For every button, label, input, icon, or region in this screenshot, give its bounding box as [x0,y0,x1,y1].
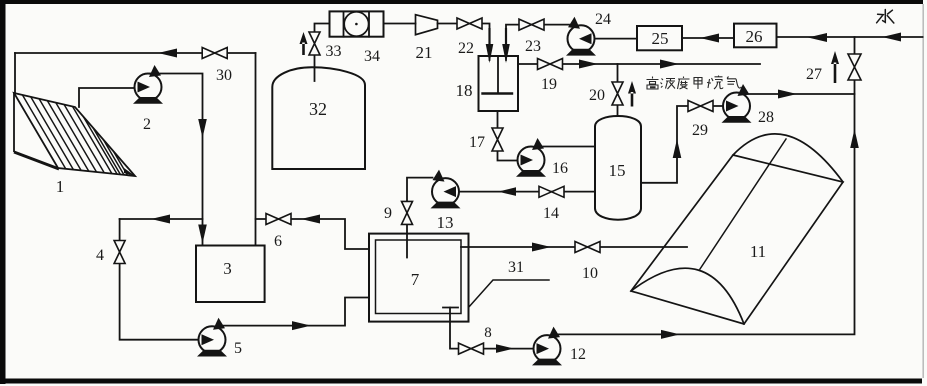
valve 33 [309,32,320,55]
svg-text:34: 34 [364,48,380,65]
svg-text:24: 24 [595,11,611,28]
valve 30 [202,48,227,59]
arrow right methane line 1 [579,60,598,69]
arrow down to box 3 lower [198,225,207,244]
arrow right box7 outlet [532,243,551,252]
svg-text:6: 6 [274,233,282,250]
tank 11 ridge line [700,139,786,269]
solar collector 1 [14,93,135,176]
wire box 18 outlet through valve 19 [518,63,760,65]
valve 17 [492,128,503,151]
thick arrow up beside valve 20 [628,81,636,107]
valve 20 [612,82,623,105]
label gao nong du jia wan qi (high concentration methane gas) [647,76,742,90]
reducer 21 [416,15,438,35]
svg-text:16: 16 [552,160,568,177]
wire cross header to valve 4 [120,218,203,220]
svg-text:29: 29 [692,122,708,139]
svg-text:15: 15 [609,161,626,180]
wire valve 33 riser to flowmeter [315,24,330,33]
flowmeter center dot [355,23,358,26]
valve 29 [688,101,713,112]
svg-text:7: 7 [411,270,420,289]
flowmeter 33/34 outer box [330,11,384,36]
wire pump 5 outlet to box 7 lower stub [219,298,369,326]
arrow right pump5 outlet [292,321,311,330]
svg-text:21: 21 [416,43,433,62]
gas washer box 18 [479,56,519,111]
wire valve 9 line into box 7 [407,178,433,258]
pump 13 [431,170,461,209]
wire tank 15 right riser to valve 29 [641,106,724,183]
svg-text:3: 3 [223,259,232,278]
svg-text:1: 1 [56,177,65,196]
valve 9 [402,201,413,224]
valve 14 [539,186,564,197]
border frame top bar [0,0,923,4]
arrow left valve 14 line [498,187,516,196]
box 18 liquid bar [483,92,513,94]
wire box 7 drain [450,308,534,349]
box 25 [637,26,682,50]
box 18 dip tube [497,56,499,94]
arrow right into pump 12 [496,344,514,353]
flowmeter divider left [343,11,345,36]
svg-text:26: 26 [746,27,763,46]
wire right header drop to box 3 [255,53,257,245]
svg-text:10: 10 [582,265,598,282]
border frame bottom bar [4,379,922,384]
wire box 25 to pump 24 [595,38,638,40]
label shui (water) [877,10,894,24]
flowmeter circle [344,12,368,36]
border frame left bar [0,0,6,384]
wire flowmeter to reducer 21 [384,23,416,25]
arrow left into box 25 [700,34,719,43]
svg-text:9: 9 [384,205,392,222]
tank 15 vessel [595,116,641,220]
valve 8 [459,343,484,354]
svg-text:28: 28 [758,109,774,126]
wire pump 16 outlet to tank 15 [540,146,595,148]
wire reducer 21 to valve 22 [438,23,458,25]
svg-text:5: 5 [234,340,242,357]
svg-text:2: 2 [143,116,151,133]
wire pump 28 outlet to riser [745,93,855,95]
reactor box 7 inner wall [376,240,462,314]
valve 22 [457,18,482,29]
svg-text:11: 11 [750,242,766,261]
thick arrow up beside valve 27 [831,51,839,83]
valve 23 [519,19,544,30]
svg-text:20: 20 [589,87,605,104]
gas holder dome 32 [272,67,365,169]
svg-text:22: 22 [458,40,474,57]
svg-text:12: 12 [570,346,586,363]
wire water inlet to box 26 [777,36,923,38]
pump 12 [532,327,562,366]
wire valve 17 to pump 16 [498,151,519,161]
svg-text:27: 27 [806,66,822,83]
arrow down into box 18 right [502,28,510,63]
arrow right pump12 outlet [661,330,680,339]
wire header down to collector [14,53,16,93]
border frame right line [922,4,924,378]
arrow left toward valve 4 [151,215,170,224]
wire valve 20 riser from tank 15 [617,64,619,116]
box 3 [196,246,265,303]
valve 19 [538,59,563,70]
svg-text:18: 18 [456,81,473,100]
wire box 26 to box 25 [682,37,734,39]
valve 4 [114,241,125,264]
svg-text:32: 32 [309,99,327,119]
wire valve 33 to dome 32 [314,55,316,81]
valve 27 [848,54,861,80]
arrow right methane line 2 [660,60,679,69]
svg-text:17: 17 [469,134,485,151]
arrow left into box 26 [808,33,827,42]
arrow down into box 18 left [486,28,494,63]
digester tank 11 body [631,155,843,324]
tank 11 top end cap arc [733,134,843,182]
wire valve 6 branch to box 7 upper stub [256,219,370,249]
svg-text:4: 4 [96,247,104,264]
wire pump 2 outlet down to box 3 [150,74,203,245]
arrow left on header [158,49,177,58]
svg-text:13: 13 [437,213,454,232]
pump 28 [722,84,752,123]
box 26 [734,24,777,48]
arrow right pump28 outlet [778,90,797,99]
tank 11 bottom end cap arc [631,268,744,324]
wire collector to pump 2 inlet [79,88,136,107]
reactor box 7 outer wall [369,234,469,322]
svg-text:31: 31 [508,259,524,276]
box 7 drain tick [443,307,458,309]
arrow up right riser [850,129,859,148]
wire pump 24 outlet through valve 23 into box 18 [506,25,569,60]
wire top-left header [15,52,256,54]
arrow left toward valve 6 [301,215,320,224]
collector tip mark [124,168,135,176]
wire valve 14 line pump 13 to tank 15 [460,191,596,193]
svg-text:23: 23 [525,38,541,55]
svg-text:33: 33 [326,43,342,60]
pump 16 [516,138,546,177]
pump 2 [133,65,163,104]
svg-text:25: 25 [652,29,669,48]
svg-text:19: 19 [541,76,557,93]
leader line for 31 [469,280,550,308]
flow arrows [151,28,901,353]
svg-text:8: 8 [484,325,492,341]
pump 24 [566,17,596,56]
svg-text:14: 14 [543,205,559,222]
wire pump 12 outlet to right riser [554,37,855,334]
valve 6 [266,214,291,225]
wire box 7 outlet through valve 10 to tank 11 [461,246,687,248]
valve 10 [575,242,600,253]
wire valve 22 drop into box 18 [482,24,490,61]
arrow left water inlet [882,33,901,42]
arrow up tank15 right riser [673,139,682,158]
svg-text:30: 30 [216,67,232,84]
arrow down to box 3 upper [198,119,207,138]
thick arrow up beside valve 33 [300,32,308,55]
wire box 18 bottom to valve 17 [497,111,499,128]
flowmeter divider right [368,11,370,36]
wire valve 4 drop to pump 5 [120,219,199,340]
pump 5 [197,318,227,357]
